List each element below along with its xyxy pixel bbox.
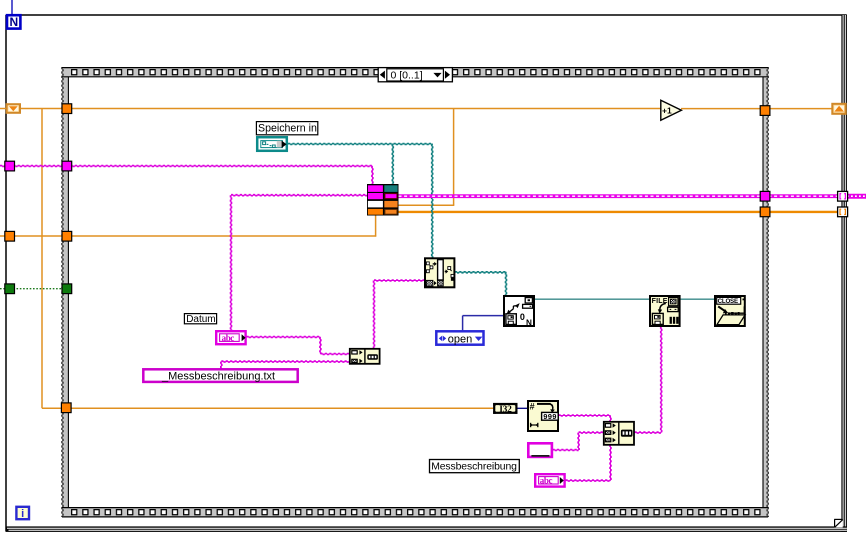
wire int I32 to 999 node [517, 407, 528, 409]
tunnel green sequence left [62, 284, 72, 294]
wire orange +1 to right shift register [681, 108, 832, 110]
wire path vertical into Open File node [505, 272, 506, 295]
wire path vertical into Build Path [432, 144, 433, 258]
wire string into bundle row2 [231, 195, 368, 196]
tunnel orange sequence right top [760, 106, 770, 116]
wire string 999 node output [559, 415, 611, 416]
wire string vertical into concat3 top [610, 416, 611, 422]
bundle node [367, 184, 399, 216]
label Speichern in [256, 122, 317, 135]
svg-text:Messbeschreibung: Messbeschreibung [431, 462, 517, 473]
tunnel indexing magenta on loop right border [838, 191, 848, 201]
tunnel magenta sequence left [62, 161, 72, 171]
CLOSE file node [715, 296, 745, 326]
string constant _Messbeschreibung.txt [143, 369, 297, 382]
svg-text:+1: +1 [662, 106, 672, 116]
wire string into concat input 1 [320, 353, 350, 354]
wire refnum Open File to FILE node [535, 298, 650, 300]
wire orange bundle row4 to loop tunnel [399, 211, 839, 213]
I32 conversion node [493, 403, 517, 415]
svg-text:open: open [448, 333, 472, 345]
wire orange from left edge to bundle bottom [0, 235, 376, 237]
wire enum into Open File node [463, 315, 504, 317]
N count terminal [7, 15, 20, 29]
empty string constant [528, 443, 552, 457]
increment +1 node [661, 100, 682, 120]
tunnel indexing orange on loop right border [838, 207, 848, 217]
svg-text:Speichern in: Speichern in [258, 123, 317, 135]
wire orange shift register to +1 node [21, 108, 662, 110]
svg-text:0 [0..1]: 0 [0..1] [391, 69, 423, 81]
svg-text:abc: abc [222, 333, 235, 343]
wire string vertical into bundle row1 [372, 166, 373, 185]
svg-text:i: i [21, 508, 24, 520]
wire path vertical into bundle row1 right [392, 144, 393, 185]
FILE write node [650, 296, 680, 326]
wire string vertical from txt constant [221, 362, 222, 369]
tunnel green on loop left border [5, 284, 15, 294]
abc string constant lower [535, 474, 564, 486]
svg-text:N: N [9, 15, 18, 29]
Build Path node [425, 258, 454, 287]
for loop corner fold [834, 519, 843, 527]
wire orange from left edge to shift register [0, 108, 6, 110]
svg-text:I32: I32 [499, 405, 512, 415]
tunnel orange sequence right bottom [760, 207, 770, 217]
wire cluster sequence tunnel to loop tunnel [769, 194, 839, 198]
wire string vertical step down [320, 337, 321, 354]
wire orange horizontal into bundle row3 [399, 204, 455, 206]
wire blue count into N [11, 0, 13, 15]
tunnel orange on loop left border [5, 231, 15, 241]
sequence structure frame [62, 67, 769, 517]
svg-text:_Messbeschreibung.txt: _Messbeschreibung.txt [161, 370, 275, 382]
label Datum [184, 314, 216, 325]
Open File node [504, 296, 534, 328]
wire cluster bundle output to sequence tunnel [399, 194, 761, 198]
wire string from left edge to bundle [0, 165, 372, 166]
wire refnum FILE node to CLOSE node [680, 298, 715, 300]
i iteration terminal [16, 507, 29, 520]
svg-text:CLOSE: CLOSE [718, 298, 738, 305]
svg-text:N: N [526, 319, 532, 328]
wire path Build Path output [455, 272, 507, 273]
svg-text:0: 0 [520, 312, 525, 322]
svg-text:abc: abc [540, 476, 553, 486]
enum constant open [436, 331, 483, 345]
svg-text:#: # [530, 402, 535, 412]
wire green boolean dotted from left edge [0, 288, 66, 290]
shift register left [7, 104, 20, 113]
wire string Datum constant to concat [247, 336, 321, 337]
wire string empty constant output [553, 449, 579, 450]
tunnel orange sequence left mid [62, 231, 72, 241]
concatenate strings node lower [604, 422, 634, 445]
tunnel magenta sequence right [760, 191, 770, 201]
wire string concat output up [373, 281, 374, 350]
number to string node 999 [528, 401, 558, 431]
wire string txt constant to concat input 2 [221, 361, 350, 362]
wire string concat3 output [635, 432, 662, 433]
abc string constant Datum [216, 331, 245, 344]
wire string vertical up to FILE node [661, 327, 662, 433]
wire orange horizontal to I32 [42, 407, 494, 409]
tunnel orange sequence left bottom [61, 403, 71, 413]
svg-text:999: 999 [543, 414, 557, 422]
wire path from Speichern in control [288, 143, 433, 144]
wire string vertical from Datum constant up [230, 195, 231, 330]
wire string abc constant output [566, 480, 611, 481]
wire cluster array outside loop hatched [847, 194, 866, 199]
label Messbeschreibung [430, 460, 520, 473]
svg-text:Datum: Datum [186, 314, 215, 325]
concatenate strings node upper [350, 349, 380, 364]
Speichern in path control terminal [257, 137, 287, 151]
wire orange vertical branch down left side [41, 109, 43, 409]
wire orange vertical branch to bundle row3 [453, 109, 455, 206]
wire enum vertical from open constant [462, 316, 464, 331]
wire string into Build Path name input [374, 280, 425, 281]
shift register right [832, 104, 845, 114]
wire orange vertical into bundle bottom [375, 216, 377, 237]
wire string vertical into concat3 bottom [610, 445, 611, 481]
tunnel orange sequence left top [62, 104, 72, 114]
tunnel magenta on loop left border [5, 161, 15, 171]
sequence selector label 0 [0..1] [378, 68, 452, 82]
wire string into concat3 input 2 [579, 432, 604, 433]
wire string vertical up [578, 433, 579, 450]
